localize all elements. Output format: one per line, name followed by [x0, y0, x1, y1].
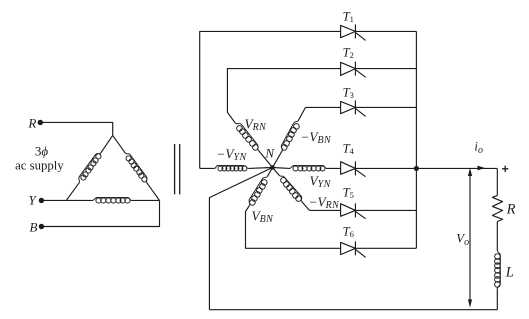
inductor L [495, 251, 501, 289]
svg-text:L: L [505, 265, 514, 281]
node dc bus to load junction [414, 166, 419, 171]
thyristor T3 [341, 100, 366, 116]
label -VYN [216, 146, 247, 163]
label T4 [343, 141, 355, 156]
label + polarity [502, 166, 508, 172]
terminal Y node [39, 198, 44, 203]
equivalence symbol [175, 144, 180, 194]
wire R to L [496, 222, 498, 251]
winding -VYN (west branch) [200, 165, 273, 171]
wire VBN to thyristor T6 [246, 212, 341, 249]
wire T1 cathode to dc bus [355, 30, 416, 32]
wire T6 cathode to dc bus [355, 247, 416, 249]
wire T3 cathode to dc bus [355, 106, 416, 108]
wire load top lead [496, 168, 498, 195]
label Y [29, 192, 38, 207]
label N [264, 145, 275, 160]
arrow Vo [468, 168, 472, 308]
svg-text:R: R [506, 201, 516, 217]
label -VBN [300, 129, 332, 146]
label VYN [310, 174, 332, 191]
node N [270, 165, 275, 170]
label VBN [252, 208, 275, 225]
winding VBN (south-west branch) [246, 168, 273, 212]
wire Y to delta [41, 199, 66, 201]
svg-text:R: R [27, 115, 36, 130]
wire T2 cathode to dc bus [355, 68, 416, 70]
svg-text:N: N [264, 145, 275, 160]
resistor R [492, 195, 502, 221]
wire bottom return rail [209, 309, 497, 311]
winding -VBN (north-east branch) [273, 107, 306, 167]
delta winding right (R-B) [113, 135, 160, 200]
wire VRN to thyristor T2 [227, 69, 340, 113]
label -VRN [309, 194, 341, 211]
wire B to delta [41, 200, 159, 226]
wire return riser to N [209, 168, 272, 310]
label T6 [343, 224, 355, 239]
svg-text:ac supply: ac supply [15, 158, 64, 172]
svg-text:B: B [30, 219, 38, 234]
label B [30, 219, 38, 234]
thyristor T2 [341, 62, 366, 78]
delta winding left (R-Y) [66, 135, 112, 200]
label Vo [456, 231, 469, 248]
thyristor T1 [341, 24, 366, 40]
winding -VRN (south-east branch) [273, 168, 310, 211]
label 3-phase ac supply [15, 144, 64, 173]
wire bus to load [416, 167, 497, 169]
label io [474, 139, 483, 156]
label T2 [343, 45, 355, 60]
wire -VBN to thyristor T3 [306, 106, 341, 108]
delta winding bottom (Y-B) [66, 197, 159, 203]
wire dc bus [415, 31, 417, 248]
label R [27, 115, 36, 130]
label T1 [343, 9, 355, 24]
label L load [505, 265, 514, 281]
thyristor T5 [341, 203, 366, 218]
wire L to bottom rail [496, 288, 498, 309]
wire T4 cathode to dc bus [355, 167, 416, 169]
winding VRN (north-west branch) [227, 112, 272, 167]
terminal B node [39, 224, 44, 229]
thyristor T6 [341, 241, 366, 257]
winding VYN (east branch) [273, 165, 341, 171]
wire T5 cathode to dc bus [355, 209, 416, 211]
label T5 [343, 185, 355, 200]
label T3 [343, 85, 355, 100]
wire -VRN to thyristor T5 [309, 209, 340, 211]
thyristor T4 [341, 161, 366, 176]
label VRN [245, 116, 268, 133]
terminal R node [38, 120, 43, 125]
label R load [506, 201, 516, 217]
svg-text:3ϕ: 3ϕ [35, 144, 49, 159]
arrow io [478, 166, 486, 171]
wire R to delta apex [41, 122, 113, 135]
wire -VYN to thyristor T1 [200, 31, 341, 168]
